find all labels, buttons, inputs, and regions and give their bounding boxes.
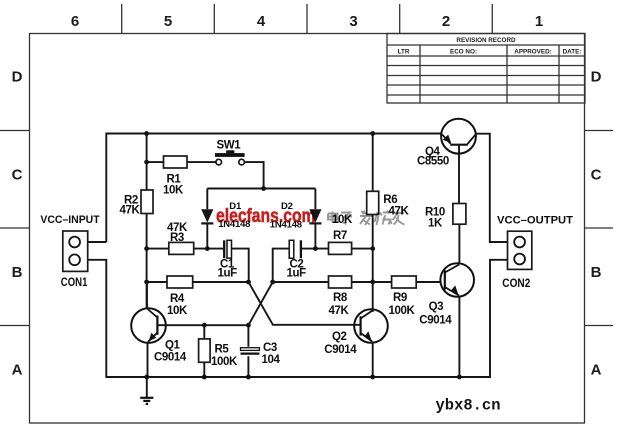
value C2 labels [287,259,307,280]
transistor Q4 [441,119,476,204]
svg-text:C9014: C9014 [324,344,357,356]
resistor R9 [392,276,417,288]
node ground rail junction Q2 [370,375,375,380]
svg-text:ECO NO:: ECO NO: [450,48,477,55]
value R10 labels [425,207,445,230]
value C1 labels [218,259,238,280]
svg-text:1uF: 1uF [218,268,238,280]
resistor R5 [199,339,211,362]
value R3 labels [167,222,188,244]
wire R1 leads [147,162,264,188]
svg-text:47K: 47K [329,305,350,317]
svg-text:R5: R5 [215,344,230,356]
svg-text:A: A [12,362,23,379]
wire R3 row [147,248,223,250]
svg-text:Q2: Q2 [332,331,347,343]
svg-text:elecfans.com: elecfans.com [216,205,316,227]
value R2 labels [120,194,141,216]
svg-text:SW1: SW1 [217,140,242,152]
resistor R4 [167,276,193,288]
node D1 bottom junction [205,246,210,251]
svg-text:REVISION RECORD: REVISION RECORD [456,37,516,44]
svg-text:ybx8.cn: ybx8.cn [436,397,501,415]
wire cross diagonal to Q2 base [249,282,361,325]
svg-text:R8: R8 [333,292,348,304]
capacitor C2 [289,240,301,258]
svg-text:D: D [591,69,602,86]
node cross left junction [246,280,251,285]
svg-text:VCC–OUTPUT: VCC–OUTPUT [497,215,573,227]
wire CON1 pin2 to ground rail [88,260,147,377]
node R8 right junction [370,280,375,285]
wire R8 leads [273,281,373,283]
svg-text:R3: R3 [170,232,184,244]
svg-text:6: 6 [71,13,79,30]
value R9 labels [389,292,416,317]
node D2 bottom junction [313,246,318,251]
wire VCC top rail [106,134,441,243]
transistor Q2 [354,309,388,377]
value SW1 label [217,140,242,152]
wire cross diagonal to Q1 base row [248,282,272,325]
watermark chinese chars [328,211,405,226]
resistor R1 [164,156,188,168]
svg-text:C9014: C9014 [419,315,452,327]
wire R7 right to R6 line [352,248,373,250]
resistor R8 [329,276,352,288]
svg-text:C3: C3 [263,342,277,354]
diode D2 [309,189,321,249]
value D1 labels [218,201,250,230]
node R1 left junction [144,160,149,165]
node ground rail junction Q1 [144,375,149,380]
value R1 labels [163,174,184,197]
node R6 top rail junction [370,131,375,136]
value R5 labels [211,344,238,368]
svg-text:CON2: CON2 [502,278,530,290]
node R1/R2 top rail junction [144,131,149,136]
value CON2 label [502,278,530,290]
value Q4 labels [417,146,449,168]
watermark elecfans.com [216,205,316,227]
node VCC-OUTPUT label [497,215,573,227]
wire Q4 collector to right rail down to CON2 pin1 [476,134,508,242]
svg-text:B: B [591,264,602,281]
resistor R3 [169,242,194,254]
svg-text:Q3: Q3 [429,301,444,313]
svg-text:Q1: Q1 [165,340,181,352]
resistor R10 [453,204,466,225]
wire diode top row [207,188,315,190]
svg-text:10K: 10K [163,185,184,197]
wire C1 right to cross node [232,249,249,282]
svg-text:3: 3 [349,13,357,30]
node VCC-INPUT label [40,214,99,226]
wire ground rail [147,260,508,377]
capacitor C3 [241,348,260,354]
wire CON1 pin1 to rail [88,241,107,243]
node ground rail junction Q3 [457,375,462,380]
node ground rail junction C3 [246,375,251,380]
node SW1 drop junction [261,186,266,191]
connector CON2 [508,231,532,269]
svg-text:C9014: C9014 [154,352,187,364]
svg-text:C8550: C8550 [417,156,449,168]
node C3 top junction [246,323,251,328]
wire Q1 base row [157,324,248,326]
svg-text:2: 2 [442,13,450,30]
svg-text:VCC–INPUT: VCC–INPUT [40,214,99,226]
svg-text:1: 1 [535,13,543,30]
svg-text:1K: 1K [428,218,443,230]
connector CON1 [63,231,88,271]
value Q2 labels [324,331,357,356]
svg-text:R7: R7 [333,230,347,242]
capacitor C1 [224,240,231,258]
ground [140,377,153,404]
resistor R7 [329,242,352,254]
svg-text:APPROVED:: APPROVED: [514,48,551,55]
svg-text:1uF: 1uF [287,268,307,280]
value R6 labels [383,194,409,218]
svg-text:R4: R4 [170,293,185,305]
node R5 top junction [202,323,207,328]
value D2 labels [270,201,302,231]
svg-text:B: B [12,264,23,281]
svg-text:LTR: LTR [398,48,410,55]
value C3 labels [262,342,281,366]
node R4 left junction [144,280,149,285]
value Q1 labels [154,340,187,364]
wire C3 leads [247,325,249,377]
watermark ybx8.cn [436,397,501,415]
node R7 right junction [370,246,375,251]
svg-text:100K: 100K [389,305,416,317]
wire C2 to R7 [302,248,329,250]
resistor R6 [367,191,379,214]
switch SW1 [215,150,245,165]
wire R9 leads [373,281,441,283]
value R4 labels [167,293,188,317]
value CON1 label [61,277,88,289]
svg-text:47K: 47K [120,205,141,217]
transistor Q3 [440,224,474,377]
svg-text:100K: 100K [211,356,238,368]
svg-text:D: D [12,69,23,86]
wire R2 branch vertical [146,134,148,309]
node R3 left junction [144,246,149,251]
value R7 labels [332,214,353,242]
svg-text:C: C [12,167,23,184]
svg-text:R9: R9 [393,292,407,304]
wire R4 row [147,281,249,283]
diode D1 [201,189,213,249]
wire R6 branch vertical [372,134,374,310]
value Q3 labels [419,301,452,327]
resistor R2 [141,190,153,214]
node cross right junction [270,280,275,285]
revision record table [387,34,585,104]
wire C2 left to cross node [273,249,290,282]
svg-text:R6: R6 [383,194,397,206]
svg-text:DATE:: DATE: [563,48,582,55]
svg-text:5: 5 [164,13,172,30]
svg-text:104: 104 [262,354,281,366]
svg-text:C: C [591,167,602,184]
svg-text:A: A [591,362,602,379]
svg-text:4: 4 [257,13,266,30]
wire R5 leads [203,325,205,377]
node ground rail junction R5 [202,375,207,380]
transistor Q1 [131,282,166,377]
value R8 labels [329,292,350,317]
svg-text:10K: 10K [167,305,188,317]
svg-text:CON1: CON1 [61,277,88,289]
